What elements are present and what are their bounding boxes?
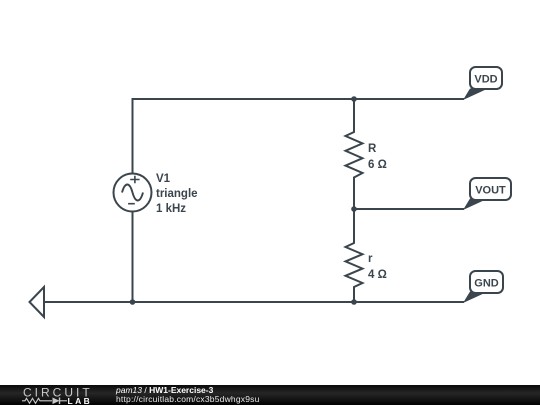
wire top rail: [133, 99, 465, 173]
svg-text:VDD: VDD: [474, 74, 497, 86]
svg-text:V1: V1: [156, 173, 171, 185]
svg-text:1 kHz: 1 kHz: [156, 203, 186, 215]
svg-text:4 Ω: 4 Ω: [368, 269, 387, 281]
junction node bottom right: [351, 299, 357, 305]
svg-text:LAB: LAB: [68, 395, 93, 405]
resistor r: [346, 209, 363, 302]
CircuitLab logo: [0, 385, 110, 405]
label V1 triangle 1 kHz: [156, 173, 198, 215]
svg-text:6 Ω: 6 Ω: [368, 159, 387, 171]
net flag VOUT: [463, 178, 511, 210]
label R 6 ohm: [368, 143, 387, 171]
svg-text:GND: GND: [474, 278, 499, 290]
junction node top: [351, 96, 357, 102]
wire middle VOUT: [354, 208, 464, 210]
wire V1 bottom lead: [132, 211, 134, 302]
resistor R: [346, 99, 363, 209]
footer title text: [116, 386, 260, 405]
junction node bottom left: [130, 299, 136, 305]
svg-text:VOUT: VOUT: [475, 185, 506, 197]
footer bar: [0, 385, 540, 405]
svg-text:triangle: triangle: [156, 188, 198, 200]
svg-text:R: R: [368, 143, 377, 155]
svg-text:r: r: [368, 253, 373, 265]
ground terminal arrow: [30, 287, 45, 317]
net flag GND: [463, 271, 503, 303]
junction node VOUT: [351, 206, 357, 212]
wire bottom rail: [44, 301, 464, 303]
voltage source V1: [114, 174, 152, 212]
label r 4 ohm: [368, 253, 387, 281]
net flag VDD: [463, 67, 502, 100]
